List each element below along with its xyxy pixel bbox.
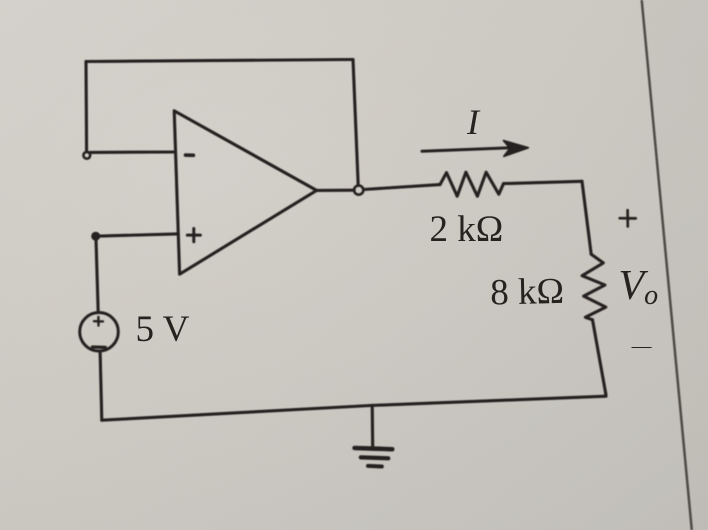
wire source to bottom [100, 351, 102, 420]
resistor R1 2 kOhm [440, 172, 504, 196]
wire junction to source [96, 236, 98, 312]
current arrow [422, 141, 528, 157]
node non-inverting junction [92, 233, 99, 240]
ground [355, 405, 393, 466]
wire feedback vertical drop [353, 60, 358, 186]
op-amp inverting pin label - [186, 153, 194, 157]
wire right vertical upper [582, 181, 591, 254]
wire resistor to right corner [504, 181, 583, 183]
wire bottom [102, 393, 606, 420]
resistor R2 8 kOhm [582, 254, 606, 320]
wire top feedback [86, 60, 353, 62]
node output [354, 186, 363, 195]
node inverting input terminal [83, 152, 90, 159]
polarity label plus [620, 210, 636, 226]
polarity label minus [633, 346, 650, 350]
wire inverting input [90, 150, 175, 153]
op-amp U1 [174, 111, 316, 274]
wire op-amp output [317, 189, 355, 192]
wire left vertical feedback [84, 62, 88, 152]
wire output to resistor [363, 185, 440, 190]
wire non-inverting input [96, 234, 177, 236]
page edge [642, 0, 692, 530]
op-amp non-inverting pin label + [187, 229, 200, 242]
wire right vertical lower [593, 320, 606, 394]
voltage source V1 [80, 313, 119, 352]
page margin shade [642, 0, 708, 530]
